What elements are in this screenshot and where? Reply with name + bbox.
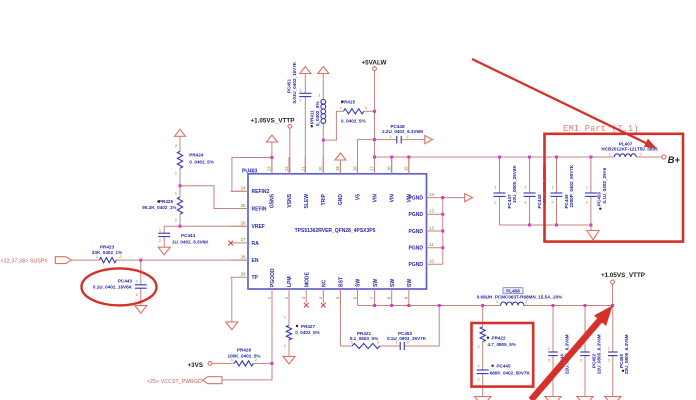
svg-text:VSNS: VSNS — [287, 193, 293, 207]
junction — [584, 304, 587, 307]
pin names left — [252, 189, 270, 281]
pin numbers left side — [241, 186, 246, 277]
svg-text:+3VS: +3VS — [188, 362, 204, 369]
svg-text:1: 1 — [586, 185, 588, 190]
svg-text:0_0402_5%: 0_0402_5% — [341, 119, 366, 124]
svg-text:2.2U_0402_6.3V6M: 2.2U_0402_6.3V6M — [382, 129, 423, 134]
junction — [441, 213, 444, 216]
svg-text:2: 2 — [159, 238, 161, 243]
svg-text:MODE: MODE — [304, 271, 310, 287]
capacitor PC447 — [494, 157, 518, 225]
wire REFIN2 loop from GSNS node to pin 24 — [232, 158, 272, 192]
capacitor PC449 — [551, 157, 575, 225]
red annotation box EMI part — [545, 134, 684, 242]
svg-text:1: 1 — [340, 105, 342, 110]
svg-text:15: 15 — [404, 166, 409, 171]
IC top pin stubs — [272, 157, 409, 174]
wire jog from +5VALW column to V5 pin 18 — [358, 140, 375, 174]
svg-text:22U_0805_6.3V6M: 22U_0805_6.3V6M — [624, 334, 629, 374]
resistor PR421 — [350, 331, 380, 349]
inductor PL408 — [477, 288, 563, 306]
svg-text:V5: V5 — [355, 194, 361, 200]
no-connect X on pin 3 MODE — [304, 303, 309, 308]
svg-text:PC443: PC443 — [118, 279, 132, 284]
svg-text:2200P_0402_50V7K: 2200P_0402_50V7K — [569, 164, 574, 207]
svg-text:2: 2 — [639, 152, 641, 157]
resistor PR411 (coil style, 0 ohm) — [310, 74, 326, 140]
svg-text:SLEW: SLEW — [304, 194, 310, 209]
junction — [498, 156, 501, 159]
svg-text:PC455: PC455 — [596, 192, 601, 206]
svg-text:EN: EN — [252, 258, 259, 264]
pin names bottom — [270, 268, 413, 287]
junction — [611, 304, 614, 307]
junction — [271, 362, 274, 365]
svg-text:0.68UH_PCMC063T-R68MN_15.5A_20: 0.68UH_PCMC063T-R68MN_15.5A_20% — [477, 294, 563, 299]
svg-text:2: 2 — [548, 358, 550, 363]
svg-text:2: 2 — [608, 358, 610, 363]
ground below PC452 — [577, 397, 593, 400]
svg-text:1: 1 — [551, 185, 553, 190]
power arrow above PR411 — [318, 67, 329, 74]
svg-text:<25> VCCST_PWRGD: <25> VCCST_PWRGD — [147, 379, 202, 385]
pin numbers top — [267, 166, 409, 171]
red annotation arrow 1 (to PL407) — [472, 59, 657, 149]
svg-text:14: 14 — [429, 192, 434, 197]
svg-text:BST: BST — [339, 277, 345, 287]
junction — [441, 246, 444, 249]
wire +1.05VS_VTTP (bottom) down to rail — [612, 284, 614, 306]
svg-text:2: 2 — [255, 357, 257, 362]
ground below PR427 — [283, 356, 295, 364]
svg-text:18: 18 — [352, 166, 357, 171]
svg-text:0.1U_0402_16V6K: 0.1U_0402_16V6K — [93, 285, 133, 290]
svg-text:PR421: PR421 — [357, 331, 371, 336]
svg-text:SW: SW — [390, 279, 396, 287]
svg-text:2: 2 — [406, 134, 408, 139]
junction — [441, 230, 444, 233]
svg-text:PR422: PR422 — [492, 335, 506, 340]
svg-text:1: 1 — [284, 315, 286, 320]
svg-text:PU403: PU403 — [242, 168, 258, 174]
wire net +1.05VS_VTTP to pin 22 — [289, 128, 291, 174]
svg-text:PR423: PR423 — [100, 245, 114, 250]
pin names top — [270, 193, 413, 208]
power arrow above PR424 — [175, 129, 186, 136]
wire VIN pin16 stub — [391, 157, 393, 174]
power arrow above pin 19 — [335, 153, 346, 160]
red annotation box snubber — [472, 323, 534, 387]
svg-text:GSNS: GSNS — [270, 193, 276, 208]
svg-text:1: 1 — [608, 346, 610, 351]
svg-text:2: 2 — [175, 143, 177, 148]
svg-text:+5VALW: +5VALW — [362, 60, 387, 67]
svg-text:1U_0402_6.3V6K: 1U_0402_6.3V6K — [172, 240, 209, 245]
red annotation ellipse around PC443 — [82, 268, 157, 305]
svg-text:REFIN: REFIN — [252, 206, 267, 212]
off-page connector SUSP# — [55, 257, 71, 264]
svg-text:LPM: LPM — [287, 276, 293, 287]
svg-text:PC447: PC447 — [507, 194, 512, 208]
svg-text:PC445: PC445 — [497, 363, 511, 368]
junction — [390, 304, 393, 307]
capacitor PC450 — [608, 306, 629, 397]
resistor PR415 — [340, 100, 367, 124]
ground below PC450 — [605, 397, 621, 400]
op-amp U1 : main IC PU403 body — [242, 168, 427, 289]
junction — [528, 156, 531, 159]
svg-text:+1.05VS_VTTP: +1.05VS_VTTP — [251, 118, 295, 125]
svg-text:2: 2 — [524, 200, 526, 205]
svg-text:27: 27 — [241, 237, 246, 242]
resistor PR424 — [175, 136, 214, 186]
svg-text:12: 12 — [429, 225, 434, 230]
wire PR415 left lead down to TRIP node — [323, 111, 343, 140]
resistor PR423 — [92, 245, 122, 263]
svg-text:+1.05VS_VTTP: +1.05VS_VTTP — [601, 272, 645, 279]
svg-text:1: 1 — [389, 134, 391, 139]
svg-text:2: 2 — [477, 344, 479, 349]
wire PGOOD pin1 down — [271, 289, 273, 363]
ground below PC446 — [545, 397, 561, 400]
svg-text:1: 1 — [299, 88, 301, 93]
wire GND pin 19 stub — [339, 161, 341, 174]
svg-text:10: 10 — [429, 259, 434, 264]
junction — [555, 224, 558, 227]
wire capacitor ground rail — [500, 225, 591, 231]
wire SW pin stubs — [358, 289, 409, 306]
wire SW output rail after PL408 — [524, 305, 613, 307]
svg-text:1: 1 — [318, 93, 320, 98]
wire TRIP node down to pin 20 — [322, 140, 324, 174]
capacitor PC444 — [158, 226, 209, 247]
svg-text:1: 1 — [496, 299, 498, 304]
node +3VS terminal circle — [208, 362, 212, 366]
svg-text:1: 1 — [494, 185, 496, 190]
svg-text:1: 1 — [136, 279, 138, 284]
junction — [179, 225, 182, 228]
svg-text:2: 2 — [377, 340, 379, 345]
svg-text:22U_0805_6.3V6M: 22U_0805_6.3V6M — [596, 334, 601, 374]
off-page connector VCCST_PWRGD — [203, 377, 223, 384]
svg-text:13: 13 — [429, 209, 434, 214]
svg-text:2: 2 — [477, 377, 479, 382]
svg-text:SW: SW — [356, 279, 362, 287]
junction — [407, 304, 410, 307]
svg-text:PGND: PGND — [409, 229, 424, 235]
svg-text:19: 19 — [335, 166, 340, 171]
svg-text:23: 23 — [267, 166, 272, 171]
no-connect X on pin 27 RA — [228, 241, 233, 246]
svg-text:26: 26 — [241, 221, 246, 226]
power arrow above pin 23 — [266, 135, 277, 142]
svg-text:2: 2 — [299, 98, 301, 103]
svg-text:REFIN2: REFIN2 — [252, 189, 270, 195]
svg-text:1: 1 — [175, 171, 177, 176]
svg-text:11: 11 — [429, 242, 434, 247]
svg-text:21: 21 — [301, 166, 306, 171]
junction — [552, 304, 555, 307]
svg-text:PGND: PGND — [409, 246, 424, 252]
capacitor PC455 — [585, 157, 607, 225]
svg-text:PGND: PGND — [409, 262, 424, 268]
IC left pin stubs — [231, 191, 249, 277]
pin numbers right side — [429, 192, 434, 264]
svg-text:0_0402_5%: 0_0402_5% — [189, 159, 214, 164]
svg-text:PC451: PC451 — [287, 79, 292, 93]
wire PC448 row — [375, 139, 425, 141]
svg-text:17: 17 — [369, 166, 374, 171]
svg-text:0.01U_0402_16V7K: 0.01U_0402_16V7K — [292, 61, 297, 103]
svg-text:PGOOD: PGOOD — [270, 268, 276, 287]
svg-text:TRIP: TRIP — [321, 193, 327, 205]
svg-text:PC442: PC442 — [537, 194, 542, 208]
wire PGOOD to off-page connector — [222, 363, 272, 380]
svg-text:28: 28 — [241, 254, 246, 259]
junction — [179, 184, 182, 187]
svg-text:PC444: PC444 — [181, 233, 195, 238]
svg-text:SW: SW — [407, 279, 413, 287]
svg-text:10U_0805_25V6K: 10U_0805_25V6K — [512, 165, 517, 203]
wire PR415 right lead to +5VALW column — [364, 110, 375, 112]
no-connect X on pin 4 NC — [321, 303, 326, 308]
node +5VALW terminal circle — [373, 67, 377, 71]
svg-text:1: 1 — [96, 254, 98, 259]
svg-text:PR427: PR427 — [301, 324, 315, 329]
wire VIN / B+ rail — [375, 156, 663, 158]
capacitor PC445 — [477, 363, 531, 382]
svg-text:1: 1 — [175, 191, 177, 196]
svg-text:2: 2 — [586, 200, 588, 205]
resistor PR429 — [228, 348, 261, 366]
wire VREF row pin 26 — [164, 225, 248, 227]
svg-text:16: 16 — [387, 166, 392, 171]
svg-text:VIN: VIN — [407, 194, 413, 203]
svg-text:25: 25 — [241, 203, 246, 208]
junction — [589, 224, 592, 227]
svg-text:PR424: PR424 — [189, 152, 203, 157]
capacitor PC443 — [93, 260, 147, 306]
junction — [373, 110, 376, 113]
svg-text:VIN: VIN — [372, 194, 378, 203]
junction — [438, 304, 441, 307]
svg-text:2: 2 — [136, 292, 138, 297]
resistor PR425 — [142, 186, 182, 226]
wire +3VS row — [212, 362, 272, 364]
svg-text:RA: RA — [252, 241, 260, 247]
svg-text:1: 1 — [477, 363, 479, 368]
svg-text:2: 2 — [494, 200, 496, 205]
ground below PC444 — [158, 247, 170, 255]
svg-text:NC: NC — [322, 279, 328, 287]
red annotation arrow 2 (to +1.05VS_VTTP node) — [531, 306, 613, 400]
svg-text:2: 2 — [365, 105, 367, 110]
svg-text:TPS51362RVER_QFN28_4PSX3P5: TPS51362RVER_QFN28_4PSX3P5 — [295, 228, 376, 234]
svg-text:0_0402_5%: 0_0402_5% — [295, 330, 320, 335]
ground below PC443 — [135, 306, 147, 314]
wire EN row to pin 28 — [72, 259, 249, 261]
node +1.05VS_VTTP terminal circle (bottom) — [611, 280, 615, 284]
ground below cap rail — [587, 231, 599, 240]
svg-text:VIN: VIN — [390, 194, 396, 203]
svg-text:PR425: PR425 — [159, 199, 173, 204]
junction — [407, 156, 410, 159]
svg-text:1: 1 — [548, 346, 550, 351]
svg-text:SW: SW — [373, 279, 379, 287]
svg-text:24: 24 — [241, 186, 246, 191]
off-page arrow right of PC448 — [425, 136, 433, 144]
svg-text:PC453: PC453 — [398, 331, 412, 336]
svg-text:2: 2 — [525, 299, 527, 304]
capacitor PC442 — [524, 157, 548, 225]
svg-text:1: 1 — [395, 340, 397, 345]
wire GSNS pin 23 stub up — [271, 143, 273, 174]
wire PGND stubs and bus — [427, 198, 465, 265]
svg-text:20: 20 — [318, 166, 323, 171]
svg-text:0.1U_0402_25V6: 0.1U_0402_25V6 — [602, 167, 607, 203]
svg-text:2: 2 — [318, 121, 320, 126]
capacitor PC448 — [382, 124, 423, 143]
svg-text:VREF: VREF — [252, 224, 265, 230]
svg-text:EMI Part (7.1): EMI Part (7.1) — [563, 124, 639, 134]
svg-text:PR411: PR411 — [310, 110, 315, 124]
wire SW rail — [358, 305, 501, 307]
power arrow above PC451 — [300, 67, 311, 74]
resistor PR422 — [477, 306, 515, 397]
node +1.05VS_VTTP terminal circle (top-left) — [288, 124, 292, 128]
svg-text:PC449: PC449 — [564, 194, 569, 208]
wire TP pin 29 down to ground — [231, 277, 233, 322]
capacitor PC451 — [287, 61, 312, 174]
svg-text:2: 2 — [175, 218, 177, 223]
ground below TP — [226, 322, 238, 330]
svg-text:2: 2 — [551, 200, 553, 205]
svg-text:GND: GND — [338, 194, 344, 206]
pin names right — [409, 196, 424, 269]
off-page arrow right of PGND — [465, 194, 473, 202]
svg-text:1: 1 — [159, 228, 161, 233]
junction — [528, 224, 531, 227]
junction — [481, 304, 484, 307]
junction — [270, 156, 273, 159]
svg-text:PL408: PL408 — [506, 289, 520, 294]
node B+ terminal circle — [662, 155, 666, 159]
svg-text:TP: TP — [252, 275, 259, 281]
svg-text:4.7_0805_5%: 4.7_0805_5% — [488, 342, 516, 347]
wire REFIN from divider node to pin 25 — [180, 186, 248, 209]
wire VIN pin15 stub — [408, 157, 410, 174]
junction — [373, 156, 376, 159]
svg-text:680P_0402_50V7K: 680P_0402_50V7K — [490, 370, 531, 375]
capacitor PC452 — [580, 306, 601, 397]
svg-text:1: 1 — [231, 357, 233, 362]
resistor PR427 — [284, 315, 320, 349]
svg-text:2: 2 — [407, 340, 409, 345]
svg-text:PR429: PR429 — [237, 348, 251, 353]
inductor PL407 — [601, 142, 658, 157]
svg-text:29: 29 — [241, 272, 246, 277]
svg-text:1: 1 — [351, 340, 353, 345]
svg-text:1: 1 — [524, 185, 526, 190]
junction — [555, 156, 558, 159]
capacitor PC446 — [548, 306, 569, 397]
junction — [441, 196, 444, 199]
svg-text:2: 2 — [580, 358, 582, 363]
ground below PC445 — [474, 397, 491, 400]
svg-text:PGND: PGND — [409, 212, 424, 218]
junction — [373, 304, 376, 307]
svg-text:95.3K_0402_1%: 95.3K_0402_1% — [142, 205, 176, 210]
svg-text:22: 22 — [284, 166, 289, 171]
wire +5VALW vertical — [374, 71, 376, 174]
IC bottom pin stubs — [272, 289, 340, 306]
svg-text:<32,37,38> SUSP#: <32,37,38> SUSP# — [1, 259, 48, 265]
junction — [589, 156, 592, 159]
wire BST bootstrap row — [340, 289, 439, 346]
pin numbers bottom — [267, 296, 409, 299]
svg-text:5.1_0603_5%: 5.1_0603_5% — [350, 336, 378, 341]
svg-text:1: 1 — [609, 152, 611, 157]
svg-text:B+: B+ — [668, 155, 681, 165]
junction — [390, 156, 393, 159]
svg-text:2: 2 — [119, 254, 121, 259]
junction — [139, 259, 142, 262]
capacitor PC453 — [387, 331, 427, 350]
wire LPM pin2 down — [288, 289, 290, 356]
junction — [322, 139, 325, 142]
svg-text:2: 2 — [284, 343, 286, 348]
junction — [373, 138, 376, 141]
